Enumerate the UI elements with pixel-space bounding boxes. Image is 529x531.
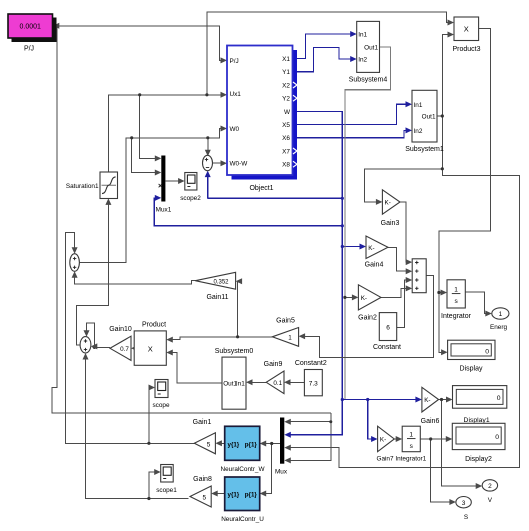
svg-text:In2: In2 <box>358 57 367 64</box>
svg-text:Gain3: Gain3 <box>381 220 400 227</box>
wire blue horizontal y198 to W vertical <box>208 197 343 199</box>
svg-text:0: 0 <box>495 434 499 441</box>
wire blue Mux1 in3 feed <box>154 198 342 226</box>
junction dot blue W to Gain6 <box>341 398 344 401</box>
arrowhead sum4 in2 <box>406 268 413 274</box>
arrowhead Gain1 input <box>215 440 222 446</box>
wire Integrator1 output to Display2 <box>420 438 450 440</box>
gain Gain2 <box>358 285 381 322</box>
svg-text:Gain6: Gain6 <box>421 418 440 425</box>
svg-text:X6: X6 <box>282 135 290 142</box>
svg-text:Out1: Out1 <box>422 114 436 121</box>
svg-text:y{1}: y{1} <box>228 491 240 498</box>
arrowhead NeuralContr_W input <box>260 441 267 447</box>
arrowhead Mux1 in1 <box>155 155 162 161</box>
wire branch to scope1 <box>149 472 159 499</box>
scope scope1 <box>156 465 177 495</box>
wire Constant2 to Gain9 <box>286 381 305 383</box>
constant P/J <box>8 14 57 53</box>
svg-text:P/J: P/J <box>24 46 34 53</box>
svg-text:In1: In1 <box>236 381 245 388</box>
wire sum1 output up to W0 row <box>79 129 225 263</box>
svg-text:Energ: Energ <box>490 324 507 331</box>
wire Gain1 output loop to sum1 top <box>66 233 195 444</box>
svg-text:In1: In1 <box>358 32 367 39</box>
display Display1 <box>453 386 507 424</box>
arrowhead scope2 input <box>178 178 185 184</box>
arrowhead sum4 in4 <box>406 285 413 291</box>
svg-text:Gain8: Gain8 <box>193 476 212 483</box>
svg-text:S: S <box>464 514 468 521</box>
svg-text:0.352: 0.352 <box>213 279 229 285</box>
arrowhead S input <box>449 499 456 505</box>
svg-text:W: W <box>284 109 291 116</box>
wire branch to Integrator input <box>439 292 445 294</box>
product Product <box>134 322 166 366</box>
wire NeuralContr_U output to Gain8 <box>213 493 225 495</box>
arrowhead Product in1 <box>166 337 173 343</box>
wire P/J net vertical x330.8 to Mux inputs <box>286 413 331 460</box>
svg-text:Integrator1: Integrator1 <box>395 455 426 462</box>
svg-text:y{1}: y{1} <box>228 441 240 448</box>
wire Subsystem0 Out1 to Product in2 <box>168 353 222 383</box>
arrowhead Mux in4 <box>284 457 291 463</box>
svg-text:7.3: 7.3 <box>309 380 318 387</box>
svg-text:0.1: 0.1 <box>273 380 282 387</box>
arrowhead sum4 in3 <box>406 277 413 283</box>
wire grey branch to Gain2 input <box>345 296 357 298</box>
wire branch down to sum W0-W top <box>207 138 209 154</box>
svg-text:W0: W0 <box>230 126 240 133</box>
outport V <box>482 480 497 504</box>
svg-text:Mux1: Mux1 <box>156 207 172 214</box>
subsystem Subsystem1 <box>405 90 444 153</box>
svg-text:V: V <box>488 497 493 504</box>
outport Energ <box>490 308 509 331</box>
wire Gain4 output to sum4 in2 <box>388 247 410 271</box>
svg-text:1: 1 <box>454 286 458 293</box>
junction dot W0 line to sum <box>206 136 209 139</box>
wire branch to Mux in1 <box>286 421 331 423</box>
svg-text:0: 0 <box>497 395 501 402</box>
junction dot Gain2 branch <box>343 296 346 299</box>
gain Gain7 <box>376 426 394 462</box>
subsystem NeuralContr_W <box>220 426 265 473</box>
wire Gain3 output to sum4 in1 <box>400 202 410 262</box>
subsystem Subsystem0 <box>215 348 254 409</box>
svg-text:In2: In2 <box>414 128 423 135</box>
gain Gain6 <box>421 387 440 425</box>
svg-text:0.7: 0.7 <box>120 346 129 353</box>
arrowhead Gain10 input <box>131 345 138 351</box>
wire sum4 output loop to Gain5 <box>300 276 433 358</box>
wire Gain6 output to Display1 <box>439 399 451 401</box>
svg-text:scope2: scope2 <box>180 195 201 202</box>
svg-text:X: X <box>464 25 469 34</box>
arrowhead sum1 top input <box>72 247 78 254</box>
wire Subsystem4 Out1 down left side of group <box>345 47 390 399</box>
arrowhead Gain11 input <box>236 278 243 284</box>
svg-text:Saturation1: Saturation1 <box>66 183 99 190</box>
wire Product3 output down to Integrator and Display <box>439 29 491 353</box>
arrowhead Mux in3 <box>284 445 291 451</box>
arrowhead Saturation1 bottom input <box>105 198 111 205</box>
svg-text:Gain7: Gain7 <box>376 455 393 462</box>
svg-text:scope1: scope1 <box>156 487 177 494</box>
svg-text:Product3: Product3 <box>452 46 480 53</box>
saturation Saturation1 <box>66 172 118 199</box>
wire blue branch Gain6 input <box>342 399 420 401</box>
constant Constant <box>373 313 401 351</box>
svg-text:NeuralContr_W: NeuralContr_W <box>220 466 265 473</box>
wire Gain2 output to sum4 in4 <box>381 288 410 297</box>
svg-text:NeuralContr_U: NeuralContr_U <box>221 516 264 523</box>
subsystem NeuralContr_U <box>221 477 264 523</box>
arrowhead Product in2 <box>166 350 173 356</box>
sum sum4 <box>412 259 426 293</box>
svg-text:Gain9: Gain9 <box>264 361 283 368</box>
wire P/J output horizontal to Object1 <box>53 26 226 61</box>
svg-text:1: 1 <box>288 335 292 342</box>
wire blue Y1 to Subsystem4 In2 <box>293 48 356 72</box>
wire sum2 output to Saturation1 input <box>77 200 109 344</box>
svg-text:K-: K- <box>385 200 391 207</box>
wire blue X6 to Subsystem1 In2 <box>293 130 411 137</box>
arrowhead blue Mux1 in3 <box>155 195 162 201</box>
svg-text:K-: K- <box>380 437 386 444</box>
junction dot Subsystem1 Out1 <box>441 114 444 117</box>
junction dot Gain6 out to V branch <box>440 398 443 401</box>
svg-text:Subsystem0: Subsystem0 <box>215 348 254 355</box>
gain Gain10 <box>109 326 132 360</box>
junction dot W0 line to Mux1 in2 <box>130 136 133 139</box>
svg-text:X1: X1 <box>282 56 290 63</box>
arrowhead V input <box>476 483 483 489</box>
svg-text:X2: X2 <box>282 82 290 89</box>
wire Integrator output to Energ <box>465 292 490 314</box>
wire Gain10 output to sum2 right <box>92 347 110 349</box>
svg-text:P/J: P/J <box>230 58 239 65</box>
svg-text:Y2: Y2 <box>282 96 290 103</box>
svg-text:Display: Display <box>460 366 483 373</box>
svg-text:p{1}: p{1} <box>245 441 258 448</box>
arrowhead Gain9 input <box>284 379 291 385</box>
wire Mux1 output to scope2 <box>165 180 183 182</box>
wire branch down to Mux1 in2 <box>132 138 160 173</box>
junction dot Ux1/Mux1 branch <box>138 93 141 96</box>
svg-text:0: 0 <box>485 348 489 355</box>
sum W0-W <box>203 155 213 170</box>
arrowhead blue Gain4 input <box>360 244 367 250</box>
svg-text:Subsystem1: Subsystem1 <box>405 146 444 153</box>
wire branch down to Mux1 in1 <box>140 95 160 159</box>
svg-text:Out1: Out1 <box>364 45 378 52</box>
wire blue X1 to Subsystem4 In1 <box>293 34 356 59</box>
svg-text:1: 1 <box>409 432 413 439</box>
wire Gain9 to Subsystem0 In1 <box>248 381 266 383</box>
arrowhead blue Subsystem1 In2 <box>406 127 413 133</box>
svg-text:5: 5 <box>207 441 211 448</box>
junction dot Gain3 branch <box>441 167 444 170</box>
svg-text:X5: X5 <box>282 122 290 129</box>
gain Gain8 <box>190 476 212 507</box>
svg-text:Constant2: Constant2 <box>295 360 327 367</box>
junction dot P/J branch <box>56 24 59 27</box>
arrowhead scope input <box>149 385 156 391</box>
wire blue W output main vertical <box>286 112 342 435</box>
arrowhead Gain5 input <box>299 333 306 339</box>
display Display <box>448 340 495 372</box>
svg-text:Gain1: Gain1 <box>193 419 212 426</box>
mux Mux <box>275 418 288 476</box>
svg-text:Mux: Mux <box>275 469 288 476</box>
svg-text:Display2: Display2 <box>465 456 492 463</box>
svg-text:Y1: Y1 <box>282 69 290 76</box>
svg-text:Integrator: Integrator <box>441 313 472 320</box>
svg-text:2: 2 <box>488 483 492 490</box>
arrowhead blue Mux in2 <box>284 432 291 438</box>
arrowhead sum4 in1 <box>406 259 413 265</box>
wire Constant output to sum4 in3 <box>397 280 411 327</box>
arrowhead sum W0-W top input <box>205 150 211 157</box>
wire NeuralContr_W output to Gain1 <box>217 442 225 444</box>
arrowhead Mux1 in2 <box>155 170 162 176</box>
wire branch over to sum2 top <box>87 323 95 348</box>
svg-text:K-: K- <box>424 397 430 404</box>
scope scope <box>152 380 169 410</box>
arrowhead into P/J block pointing left <box>53 23 60 29</box>
wire P/J vertical down left side with jog <box>52 26 331 413</box>
junction dot blue W to sum line <box>341 197 344 200</box>
arrowhead NeuralContr_U input <box>260 491 267 497</box>
arrowhead Display2 input <box>446 436 453 442</box>
arrowhead sum2 bottom input <box>83 353 89 360</box>
svg-text:6: 6 <box>386 324 390 331</box>
gain Gain1 <box>193 419 216 454</box>
arrowhead Display input <box>441 349 448 355</box>
svg-text:Gain11: Gain11 <box>206 294 228 301</box>
gain Gain3 <box>381 190 400 227</box>
svg-text:Gain4: Gain4 <box>365 262 384 269</box>
junction dot sum2 top branch <box>93 346 96 349</box>
svg-text:Object1: Object1 <box>249 185 273 192</box>
wire Mux output to NeuralContr_W <box>262 443 281 445</box>
junction dot scope branch <box>147 442 150 445</box>
wire Gain8 output up to sum2 bottom <box>86 355 189 499</box>
junction dot blue Gain7 branch <box>366 398 369 401</box>
integrator Integrator <box>441 280 472 320</box>
gain Gain5 <box>272 318 298 347</box>
wire sum W0-W output to Object1 W0-W port <box>213 162 226 164</box>
arrowhead Integrator input <box>441 290 448 296</box>
svg-text:X8: X8 <box>282 162 290 169</box>
arrowhead Object1 W0 input <box>221 126 228 132</box>
display Display2 <box>452 423 505 463</box>
svg-text:W0-W: W0-W <box>230 161 249 168</box>
arrowhead Product3 in1 <box>448 20 455 26</box>
wire Ux1 branch up to Product3 in1 <box>207 12 452 95</box>
mux Mux1 <box>156 156 172 214</box>
svg-text:Gain10: Gain10 <box>109 326 132 333</box>
wire branch down to S port <box>431 439 454 502</box>
junction dot Integrator branch <box>437 291 440 294</box>
wire Subsystem1 Out1 to Product3 in2 <box>437 35 452 117</box>
constant Constant2 <box>295 360 327 396</box>
svg-text:Gain2: Gain2 <box>358 315 377 322</box>
svg-text:5: 5 <box>202 495 206 502</box>
svg-text:In1: In1 <box>414 102 423 109</box>
arrowhead Gain3 input <box>376 199 383 205</box>
svg-text:Gain5: Gain5 <box>276 318 295 325</box>
arrowhead sum2 right input <box>91 343 98 349</box>
wire Subsystem1 Out1 big loop to Mux in3 <box>286 116 519 468</box>
svg-text:p{1}: p{1} <box>245 491 258 498</box>
arrowhead Gain8 input <box>211 491 218 497</box>
arrowhead blue Subsystem4 In2 <box>350 56 357 62</box>
arrowhead Mux in1 <box>284 419 291 425</box>
scope scope2 <box>180 173 201 203</box>
arrowhead scope1 input <box>154 469 161 475</box>
subsystem Subsystem4 <box>349 21 388 83</box>
arrowhead blue Subsystem1 In1 <box>406 101 413 107</box>
sum sum1 <box>70 254 80 272</box>
svg-text:Subsystem4: Subsystem4 <box>349 76 388 83</box>
junction dot Mux in1 branch <box>329 420 332 423</box>
arrowhead blue Gain6 input <box>415 397 422 403</box>
wire branch down to V port <box>442 400 481 487</box>
arrowhead sum2 top input <box>84 330 90 337</box>
svg-text:K-: K- <box>361 295 367 302</box>
wire branch to scope <box>149 388 153 444</box>
svg-text:K-: K- <box>368 245 374 252</box>
junction dot scope1 branch <box>147 497 150 500</box>
svg-text:X: X <box>148 344 153 353</box>
svg-text:Constant: Constant <box>373 344 401 351</box>
wire Gain5 output to Product in1 <box>168 337 272 340</box>
wire blue X5 to Subsystem1 In1 <box>293 104 411 124</box>
wire blue branch Gain4 input <box>342 246 364 248</box>
arrowhead Gain2 input <box>352 294 359 300</box>
svg-text:scope: scope <box>152 402 169 409</box>
arrowhead blue Gain7 input <box>371 436 378 442</box>
sum sum2 <box>80 337 91 353</box>
junction dot blue W to Mux1 line <box>341 224 344 227</box>
arrowhead blue sum W0-W bottom input <box>205 171 211 178</box>
gain Gain11 <box>195 272 235 301</box>
arrowhead Energ input <box>485 311 492 317</box>
gain Gain4 <box>365 236 388 269</box>
wire Gain7 output to Integrator1 <box>394 438 400 440</box>
wire branch to Gain3 input <box>364 169 442 202</box>
svg-text:Ux1: Ux1 <box>230 91 242 98</box>
svg-text:3: 3 <box>462 500 466 507</box>
arrowhead blue Subsystem4 In1 <box>350 31 357 37</box>
junction dot blue W to Gain4 <box>341 245 344 248</box>
svg-text:X7: X7 <box>282 148 290 155</box>
arrowhead Object1 P/J input <box>221 57 228 63</box>
outport S <box>456 497 471 521</box>
junction dot Ux1/Product3 branch <box>205 93 208 96</box>
product Product3 <box>452 17 480 53</box>
junction dot Integrator1 out to S branch <box>429 437 432 440</box>
integrator Integrator1 <box>395 426 426 462</box>
wire Product output to Gain10 <box>133 347 134 349</box>
arrowhead Object1 W0-W input <box>221 160 228 166</box>
junction dot Gain11 branch <box>236 335 239 338</box>
junction dot Mux output branch <box>270 442 273 445</box>
arrowhead Object1 Ux1 input <box>221 92 228 98</box>
wire Saturation1 output up and right to Ux1 <box>108 95 225 172</box>
svg-text:1: 1 <box>499 311 503 318</box>
gain Gain9 <box>264 361 284 393</box>
wire blue branch Gain7 input <box>368 400 376 440</box>
subsystem Object1 <box>227 46 297 193</box>
wire branch up to Gain11 input <box>236 281 238 337</box>
arrowhead sum1 bottom input <box>72 271 78 278</box>
svg-text:0.0001: 0.0001 <box>19 24 41 31</box>
arrowhead Integrator1 input <box>396 436 403 442</box>
wire Gain11 output to sum1 bottom <box>75 273 196 284</box>
wire blue W to sum W0-W bottom <box>207 172 209 198</box>
arrowhead Display1 input <box>446 397 453 403</box>
svg-text:Product: Product <box>142 322 166 329</box>
arrowhead Product3 in2 <box>448 32 455 38</box>
wire branch down to NeuralContr_U <box>262 444 272 494</box>
arrowhead Subsystem0 In1 <box>246 379 253 385</box>
